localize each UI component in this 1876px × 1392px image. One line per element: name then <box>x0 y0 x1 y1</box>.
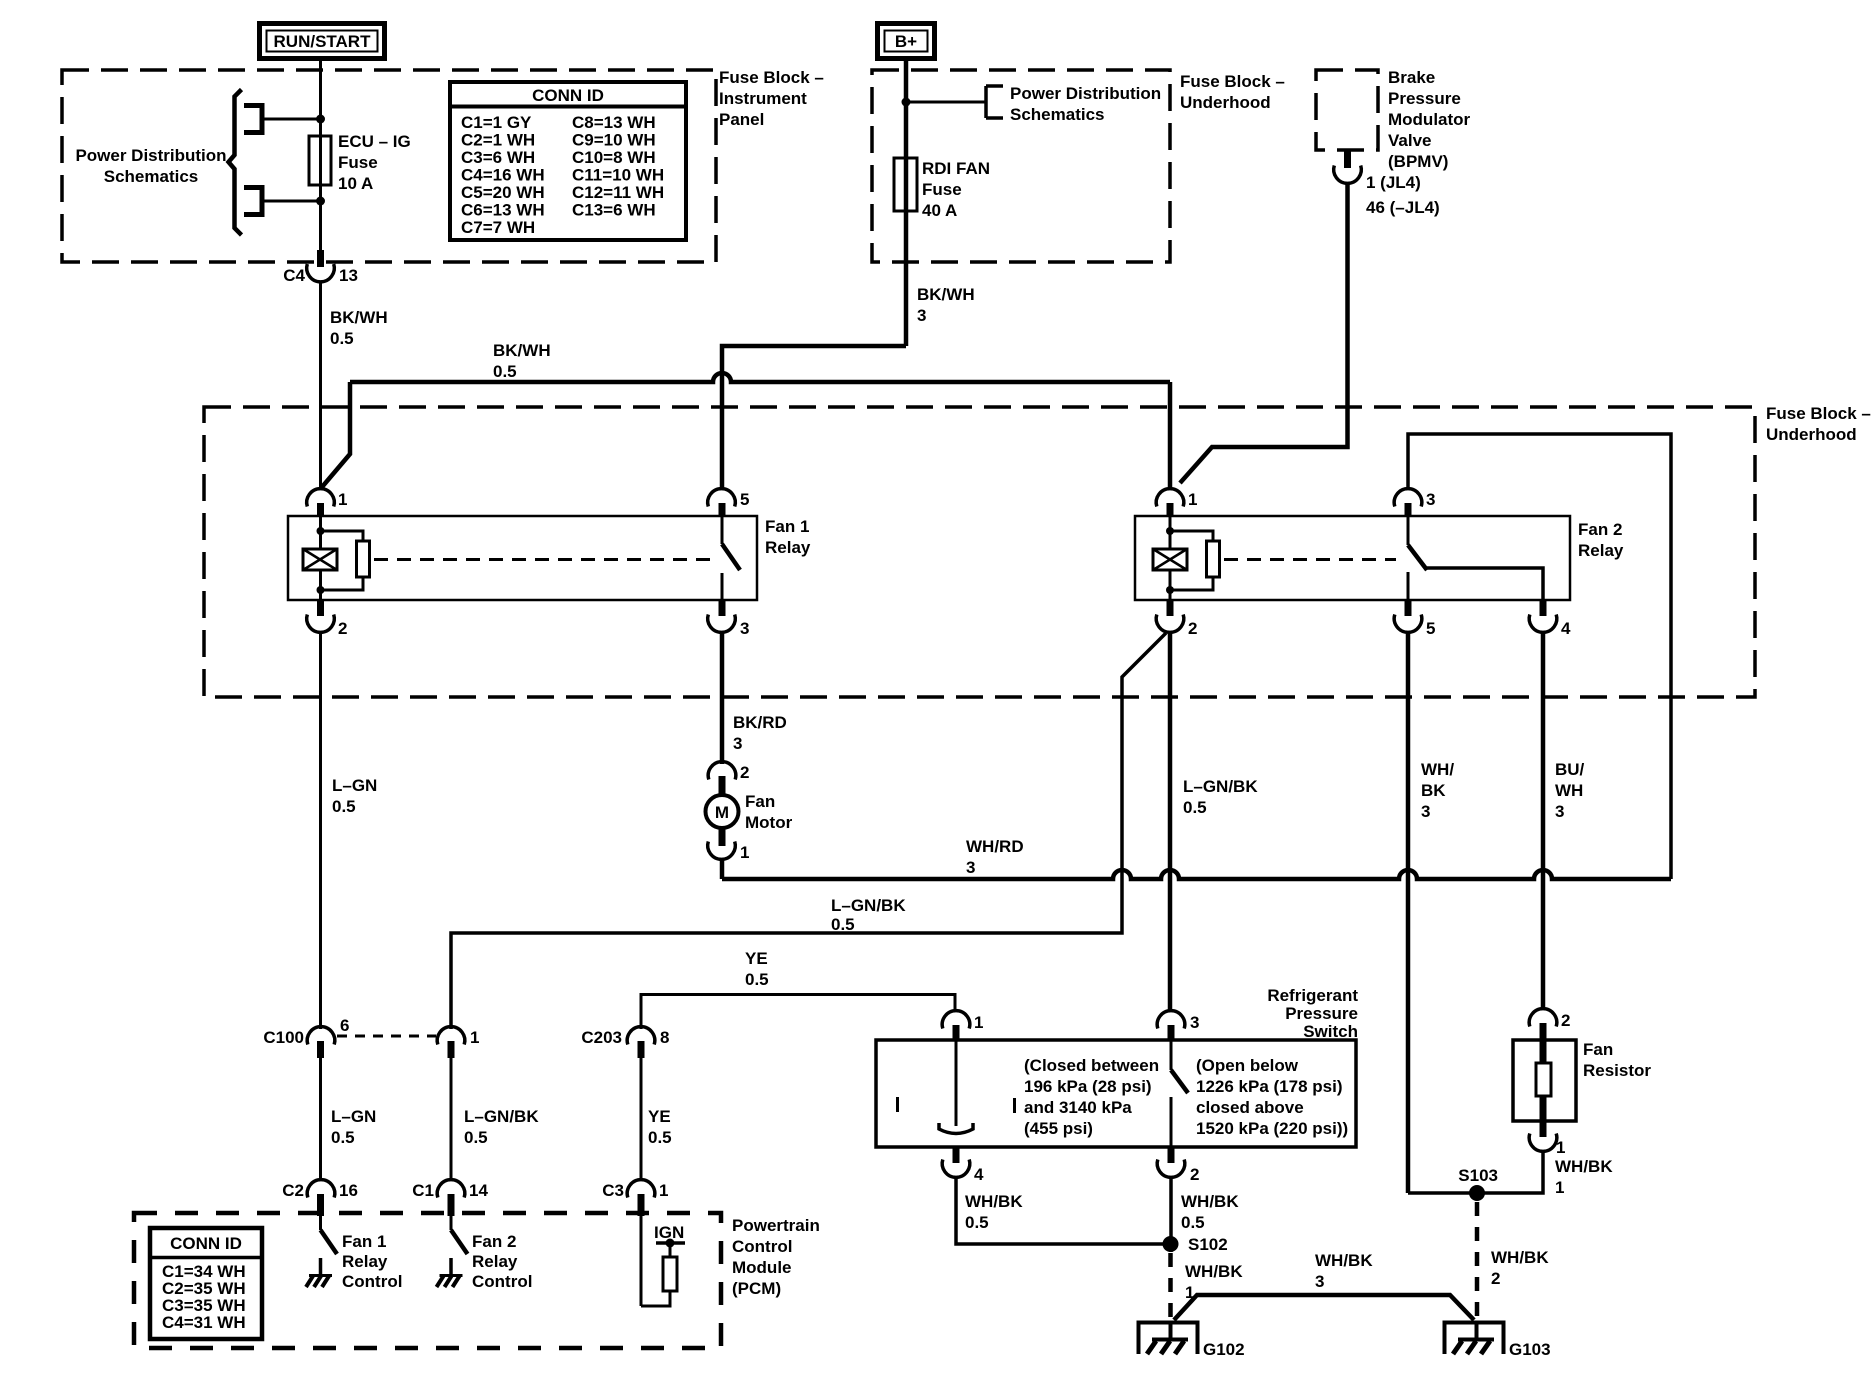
svg-text:1: 1 <box>1556 1138 1565 1157</box>
pin 2 Fan1 relay <box>307 599 348 638</box>
svg-text:6: 6 <box>340 1016 349 1035</box>
connector stub (power distribution schematics, underhood) <box>986 86 1003 118</box>
wire BPMV to Fan2 relay pin 1 <box>1180 182 1348 483</box>
svg-text:0.5: 0.5 <box>330 329 354 348</box>
ground G102 <box>1139 1322 1245 1359</box>
label BK/RD 3 <box>733 713 787 753</box>
switch Fan 2 Relay Control <box>451 1216 468 1254</box>
label YE 0.5 <box>745 949 769 989</box>
pin 1 Fan2 relay <box>1156 489 1197 517</box>
svg-text:C100: C100 <box>263 1028 304 1047</box>
dashed link C100 to inline connector <box>337 1035 436 1038</box>
svg-text:Underhood: Underhood <box>1180 93 1271 112</box>
svg-text:C4: C4 <box>283 266 305 285</box>
svg-text:closed above: closed above <box>1196 1098 1304 1117</box>
wire Fan1 pin 2 down to C100 (L-GN 0.5) <box>319 631 322 1029</box>
splice S103 <box>1469 1185 1485 1201</box>
label Power Distribution Schematics (left) <box>75 146 226 186</box>
pin 5 Fan1 relay <box>708 489 750 517</box>
svg-text:0.5: 0.5 <box>493 362 517 381</box>
svg-text:3: 3 <box>1315 1272 1324 1291</box>
connector C3 pin 1 <box>602 1180 668 1216</box>
fuse ECU-IG 10A <box>309 132 411 193</box>
svg-text:0.5: 0.5 <box>1183 798 1207 817</box>
svg-text:WH: WH <box>1555 781 1583 800</box>
svg-text:C9=10 WH: C9=10 WH <box>572 131 656 150</box>
svg-text:L–GN/BK: L–GN/BK <box>831 896 906 915</box>
svg-text:Schematics: Schematics <box>104 167 199 186</box>
wire WH/RD 3 horizontal with hops <box>722 870 1671 879</box>
label WH/BK 0.5 (pin2) <box>1181 1192 1239 1232</box>
svg-text:L–GN/BK: L–GN/BK <box>1183 777 1258 796</box>
label YE 0.5 (lower) <box>648 1107 672 1147</box>
pin 1 fan motor <box>708 828 750 862</box>
actuator tick right <box>1013 1098 1016 1113</box>
label WH/BK 2 (below S103) <box>1491 1248 1549 1288</box>
label Power Distribution Schematics (underhood) <box>1010 84 1161 124</box>
svg-text:5: 5 <box>1426 619 1435 638</box>
svg-text:Relay: Relay <box>472 1252 518 1271</box>
label Powertrain Control Module (PCM) <box>732 1216 820 1298</box>
svg-text:3: 3 <box>917 306 926 325</box>
wire YE 0.5 from C203 up to pressure switch pin 1 <box>641 995 955 1030</box>
ground (fan1 control) <box>306 1258 332 1287</box>
svg-text:3: 3 <box>1421 802 1430 821</box>
label Fuse Block - Underhood (top) <box>1180 72 1285 112</box>
contact pin1 inside pressure switch <box>939 1040 973 1134</box>
svg-text:(Open below: (Open below <box>1196 1056 1299 1075</box>
label BK/WH 3 <box>917 285 975 325</box>
relay U2 Fan 2 Relay box <box>1135 516 1570 600</box>
label Brake Pressure Modulator Valve (BPMV) <box>1388 68 1471 171</box>
svg-text:WH/BK: WH/BK <box>1181 1192 1239 1211</box>
svg-text:(455 psi): (455 psi) <box>1024 1119 1093 1138</box>
svg-text:Module: Module <box>732 1258 792 1277</box>
svg-text:3: 3 <box>1190 1013 1199 1032</box>
switch Fan2 relay <box>1408 516 1543 600</box>
node B+ branch <box>902 98 911 107</box>
node junction upper <box>316 115 325 124</box>
svg-text:and 3140 kPa: and 3140 kPa <box>1024 1098 1132 1117</box>
switch Fan 1 Relay Control <box>321 1216 338 1254</box>
svg-text:3: 3 <box>740 619 749 638</box>
svg-text:1226 kPa (178 psi): 1226 kPa (178 psi) <box>1196 1077 1342 1096</box>
svg-text:Power Distribution: Power Distribution <box>1010 84 1161 103</box>
svg-text:M: M <box>715 803 729 822</box>
wire branch diagonal to x=1122 <box>451 633 1166 1029</box>
svg-text:1: 1 <box>974 1013 983 1032</box>
svg-text:C13=6 WH: C13=6 WH <box>572 201 656 220</box>
label Refrigerant Pressure Switch <box>1267 986 1358 1041</box>
svg-text:10 A: 10 A <box>338 174 373 193</box>
svg-text:Fan 1: Fan 1 <box>342 1232 386 1251</box>
svg-text:Switch: Switch <box>1303 1022 1358 1041</box>
svg-text:0.5: 0.5 <box>464 1128 488 1147</box>
svg-text:(BPMV): (BPMV) <box>1388 152 1448 171</box>
dashed box Fuse Block - Instrument Panel <box>62 70 716 262</box>
label BK/WH 0.5 <box>330 308 388 348</box>
label Fan 1 Relay <box>765 517 811 557</box>
label WH/RD 3 <box>966 837 1024 877</box>
switch S1 refrigerant pressure switch box <box>876 1040 1356 1147</box>
wire C100 to C2 (L-GN 0.5) <box>319 1058 322 1181</box>
pin 3 pressure switch <box>1157 1011 1199 1041</box>
pin 3 Fan1 relay <box>708 599 750 638</box>
wire WH/BK 3 from Fan2 pin 5 down <box>1406 631 1411 1193</box>
power tag RUN/START <box>260 24 385 59</box>
wire C203 to C3 (YE 0.5) <box>640 1058 643 1181</box>
svg-text:4: 4 <box>1561 619 1571 638</box>
connector C100 pin 6 <box>263 1016 349 1058</box>
svg-text:0.5: 0.5 <box>831 915 855 934</box>
svg-text:1: 1 <box>659 1181 668 1200</box>
connector C2 pin 16 <box>282 1180 358 1216</box>
fuse RDI FAN 40A <box>894 158 990 220</box>
svg-text:1: 1 <box>1188 490 1197 509</box>
IGN pullup inside PCM <box>641 1216 685 1306</box>
svg-text:RUN/START: RUN/START <box>274 32 372 51</box>
svg-text:BK/RD: BK/RD <box>733 713 787 732</box>
svg-text:Fan 1: Fan 1 <box>765 517 809 536</box>
label BU/ WH 3 <box>1555 760 1585 821</box>
svg-text:1520 kPa (220 psi)): 1520 kPa (220 psi)) <box>1196 1119 1348 1138</box>
svg-text:C4=31 WH: C4=31 WH <box>162 1313 246 1332</box>
svg-text:Underhood: Underhood <box>1766 425 1857 444</box>
svg-text:(Closed between: (Closed between <box>1024 1056 1159 1075</box>
svg-text:C203: C203 <box>581 1028 622 1047</box>
wire pin2 down to S102 <box>1169 1176 1173 1252</box>
svg-text:Powertrain: Powertrain <box>732 1216 820 1235</box>
wire B+ corner to Fan1 relay pin 5 <box>722 346 906 490</box>
svg-text:C1=1 GY: C1=1 GY <box>461 113 532 132</box>
pin 3 Fan2 relay <box>1394 489 1435 517</box>
dashed box BPMV <box>1316 70 1378 150</box>
label WH/BK 3 (bottom) <box>1315 1251 1373 1291</box>
svg-text:Control: Control <box>472 1272 532 1291</box>
svg-text:Schematics: Schematics <box>1010 105 1105 124</box>
label Fuse Block - Instrument Panel <box>719 68 824 129</box>
label WH/BK 1 (below S102) <box>1185 1262 1243 1302</box>
mechanical linkage Fan1 <box>374 558 717 561</box>
svg-text:C2=1 WH: C2=1 WH <box>461 131 535 150</box>
svg-text:Refrigerant: Refrigerant <box>1267 986 1358 1005</box>
dashed box Fuse Block - Underhood (top) <box>872 70 1170 262</box>
svg-text:B+: B+ <box>895 32 917 51</box>
svg-text:3: 3 <box>733 734 742 753</box>
svg-text:S103: S103 <box>1458 1166 1498 1185</box>
svg-text:13: 13 <box>339 266 358 285</box>
svg-text:BK: BK <box>1421 781 1446 800</box>
svg-text:0.5: 0.5 <box>648 1128 672 1147</box>
svg-text:Fan 2: Fan 2 <box>472 1232 516 1251</box>
svg-text:Control: Control <box>342 1272 402 1291</box>
svg-text:0.5: 0.5 <box>331 1128 355 1147</box>
resistor R1 Fan Resistor <box>1513 1023 1651 1137</box>
svg-text:Panel: Panel <box>719 110 764 129</box>
wire BU/WH 3 from Fan2 pin 4 down to resistor <box>1541 631 1546 1010</box>
svg-text:Fuse Block –: Fuse Block – <box>1766 404 1871 423</box>
svg-text:WH/BK: WH/BK <box>1185 1262 1243 1281</box>
svg-text:Fuse: Fuse <box>922 180 962 199</box>
svg-text:Fuse Block –: Fuse Block – <box>1180 72 1285 91</box>
svg-text:2: 2 <box>1190 1165 1199 1184</box>
wire Fan2 pin 3 loop up and right <box>1408 434 1671 879</box>
label L-GN/BK 0.5 (branch) <box>831 896 906 934</box>
svg-text:Pressure: Pressure <box>1285 1004 1358 1023</box>
switch Fan1 relay <box>722 516 740 600</box>
connector C1 pin 14 <box>412 1180 488 1216</box>
label BK/WH 0.5 (second) <box>493 341 551 381</box>
svg-text:3: 3 <box>1555 802 1564 821</box>
svg-text:0.5: 0.5 <box>745 970 769 989</box>
conn id table (PCM) <box>150 1228 262 1339</box>
svg-text:Fuse Block –: Fuse Block – <box>719 68 824 87</box>
svg-text:S102: S102 <box>1188 1235 1228 1254</box>
svg-text:YE: YE <box>745 949 768 968</box>
label L-GN 0.5 <box>332 776 377 816</box>
pin 2 pressure switch <box>1157 1147 1199 1184</box>
svg-text:BU/: BU/ <box>1555 760 1585 779</box>
svg-text:3: 3 <box>966 858 975 877</box>
power tag B+ <box>878 24 935 59</box>
svg-text:2: 2 <box>1491 1269 1500 1288</box>
wire BK/WH left end down to Fan1 pin 1 <box>322 382 350 487</box>
svg-text:C10=8 WH: C10=8 WH <box>572 148 656 167</box>
connector C203 pin 8 <box>581 1027 669 1058</box>
svg-text:Motor: Motor <box>745 813 793 832</box>
coil K1 Fan1 relay <box>303 516 370 600</box>
pin 1 pressure switch <box>942 1011 983 1041</box>
svg-text:1: 1 <box>1555 1178 1564 1197</box>
svg-text:(PCM): (PCM) <box>732 1279 781 1298</box>
svg-text:1: 1 <box>470 1028 479 1047</box>
svg-text:4: 4 <box>974 1165 984 1184</box>
svg-text:C4=16 WH: C4=16 WH <box>461 166 545 185</box>
svg-text:WH/BK: WH/BK <box>1555 1157 1613 1176</box>
svg-text:2: 2 <box>1561 1011 1570 1030</box>
svg-text:G103: G103 <box>1509 1340 1551 1359</box>
svg-text:Fan 2: Fan 2 <box>1578 520 1622 539</box>
pin 1 Fan1 relay <box>307 489 348 517</box>
svg-text:RDI FAN: RDI FAN <box>922 159 990 178</box>
wire to lower stub <box>262 200 320 203</box>
connector stub lower (power distribution) <box>244 188 262 215</box>
svg-text:L–GN/BK: L–GN/BK <box>464 1107 539 1126</box>
svg-text:BK/WH: BK/WH <box>917 285 975 304</box>
label closed-between text <box>1024 1056 1159 1138</box>
coil K2 Fan2 relay <box>1153 516 1220 600</box>
svg-text:C8=13 WH: C8=13 WH <box>572 113 656 132</box>
svg-text:8: 8 <box>660 1028 669 1047</box>
wire motor pin 1 to corner <box>720 858 725 879</box>
svg-text:1: 1 <box>338 490 347 509</box>
pin 2 fan motor <box>708 762 749 795</box>
svg-text:C3=6 WH: C3=6 WH <box>461 148 535 167</box>
wire Fan1 pin 3 down to motor (BK/RD 3) <box>720 631 725 764</box>
relay U1 Fan 1 Relay box <box>288 516 757 600</box>
actuator tick left <box>896 1097 899 1112</box>
svg-text:1: 1 <box>740 843 749 862</box>
svg-text:C7=7 WH: C7=7 WH <box>461 218 535 237</box>
connector BPMV pin 1 (JL4) <box>1334 150 1440 217</box>
wire WH/BK 3 between grounds <box>1174 1295 1474 1320</box>
label WH/BK 1 (resistor) <box>1555 1157 1613 1197</box>
pin 4 pressure switch <box>942 1147 984 1184</box>
label open-below text <box>1196 1056 1348 1138</box>
contact pin3 inside pressure switch <box>1171 1040 1188 1147</box>
svg-text:C3: C3 <box>602 1181 624 1200</box>
connector C4 pin 13 <box>283 250 358 285</box>
svg-text:WH/BK: WH/BK <box>965 1192 1023 1211</box>
svg-text:Valve: Valve <box>1388 131 1432 150</box>
svg-text:L–GN: L–GN <box>332 776 377 795</box>
svg-text:Relay: Relay <box>342 1252 388 1271</box>
svg-text:3: 3 <box>1426 490 1435 509</box>
svg-text:2: 2 <box>338 619 347 638</box>
svg-text:CONN ID: CONN ID <box>170 1234 242 1253</box>
svg-text:40 A: 40 A <box>922 201 957 220</box>
svg-text:WH/RD: WH/RD <box>966 837 1024 856</box>
label L-GN/BK 0.5 (lower) <box>464 1107 539 1147</box>
wire Fan2 pin 2 down to pressure switch pin 3 (L-GN/BK 0.5) <box>1168 631 1173 1012</box>
label Fan 2 Relay Control <box>472 1232 532 1291</box>
svg-text:0.5: 0.5 <box>1181 1213 1205 1232</box>
wire RUN/START down to C4 <box>319 59 322 251</box>
wire pin4 down and right to S102 <box>956 1176 1170 1244</box>
svg-text:14: 14 <box>469 1181 488 1200</box>
svg-text:Pressure: Pressure <box>1388 89 1461 108</box>
svg-text:C6=13 WH: C6=13 WH <box>461 201 545 220</box>
label WH/BK 0.5 (pin4) <box>965 1192 1023 1232</box>
pin 5 Fan2 relay <box>1394 599 1435 638</box>
svg-text:Relay: Relay <box>1578 541 1624 560</box>
label Fan 2 Relay <box>1578 520 1624 560</box>
svg-text:WH/BK: WH/BK <box>1315 1251 1373 1270</box>
svg-text:16: 16 <box>339 1181 358 1200</box>
svg-text:Fan: Fan <box>1583 1040 1613 1059</box>
wire to upper stub <box>262 118 320 121</box>
dashed box Fuse Block - Underhood (main) <box>204 407 1755 697</box>
svg-text:Instrument: Instrument <box>719 89 807 108</box>
svg-text:2: 2 <box>740 763 749 782</box>
ground (fan2 control) <box>437 1258 463 1287</box>
brace <box>229 90 242 236</box>
svg-text:Modulator: Modulator <box>1388 110 1471 129</box>
wire dashed S103 to G103 <box>1475 1202 1480 1320</box>
svg-text:Relay: Relay <box>765 538 811 557</box>
svg-text:Resistor: Resistor <box>1583 1061 1651 1080</box>
wire to power distribution stub <box>906 101 986 104</box>
connector inline pin 1 <box>437 1027 479 1058</box>
wire inline to C1 (L-GN/BK 0.5) <box>450 1058 453 1181</box>
pin 1 fan resistor <box>1529 1134 1565 1158</box>
wire BK/WH right end down to Fan2 pin 1 <box>1168 382 1173 490</box>
connector stub upper (power distribution) <box>244 106 262 133</box>
svg-text:C5=20 WH: C5=20 WH <box>461 183 545 202</box>
node junction lower <box>316 197 325 206</box>
svg-text:YE: YE <box>648 1107 671 1126</box>
svg-text:L–GN: L–GN <box>331 1107 376 1126</box>
dashed box PCM <box>134 1213 721 1348</box>
svg-text:WH/: WH/ <box>1421 760 1454 779</box>
conn id table (instrument panel) <box>450 82 686 240</box>
pin 2 Fan2 relay <box>1156 599 1197 638</box>
svg-text:0.5: 0.5 <box>332 797 356 816</box>
svg-text:C12=11 WH: C12=11 WH <box>572 183 664 202</box>
wire B+ down <box>904 59 909 346</box>
svg-text:G102: G102 <box>1203 1340 1245 1359</box>
label L-GN 0.5 (lower) <box>331 1107 376 1147</box>
svg-text:IGN: IGN <box>654 1223 684 1242</box>
svg-text:BK/WH: BK/WH <box>330 308 388 327</box>
svg-text:BK/WH: BK/WH <box>493 341 551 360</box>
wire resistor pin1 down to S103 <box>1408 1150 1543 1193</box>
svg-text:1 (JL4): 1 (JL4) <box>1366 173 1421 192</box>
svg-text:Control: Control <box>732 1237 792 1256</box>
splice S102 <box>1163 1236 1179 1252</box>
svg-text:CONN ID: CONN ID <box>532 86 604 105</box>
svg-text:WH/BK: WH/BK <box>1491 1248 1549 1267</box>
svg-text:0.5: 0.5 <box>965 1213 989 1232</box>
svg-text:46 (–JL4): 46 (–JL4) <box>1366 198 1440 217</box>
label WH/ BK 3 <box>1421 760 1454 821</box>
mechanical linkage Fan2 <box>1224 558 1396 561</box>
label L-GN/BK 0.5 (fan2 pin2) <box>1183 777 1258 817</box>
svg-text:Fan: Fan <box>745 792 775 811</box>
wire C4 to Fan1 relay pin 1 (BK/WH 0.5) <box>319 281 322 490</box>
svg-text:C11=10 WH: C11=10 WH <box>572 166 664 185</box>
label Fuse Block - Underhood (right) <box>1766 404 1871 444</box>
svg-text:Fuse: Fuse <box>338 153 378 172</box>
ground G103 <box>1445 1322 1551 1359</box>
svg-text:2: 2 <box>1188 619 1197 638</box>
svg-text:5: 5 <box>740 490 749 509</box>
wire dashed S102 to G102 <box>1168 1253 1173 1320</box>
svg-text:C2: C2 <box>282 1181 304 1200</box>
svg-text:196 kPa (28 psi): 196 kPa (28 psi) <box>1024 1077 1152 1096</box>
svg-text:Power Distribution: Power Distribution <box>75 146 226 165</box>
svg-text:ECU – IG: ECU – IG <box>338 132 411 151</box>
svg-text:C1: C1 <box>412 1181 434 1200</box>
pin 2 fan resistor <box>1529 1009 1570 1063</box>
wire BK/WH 0.5 long horizontal with hop at x=722 <box>350 373 1170 382</box>
pin 4 Fan2 relay <box>1529 599 1571 638</box>
label Fan 1 Relay Control <box>342 1232 402 1291</box>
svg-text:Brake: Brake <box>1388 68 1435 87</box>
motor M1 Fan Motor <box>706 792 793 832</box>
